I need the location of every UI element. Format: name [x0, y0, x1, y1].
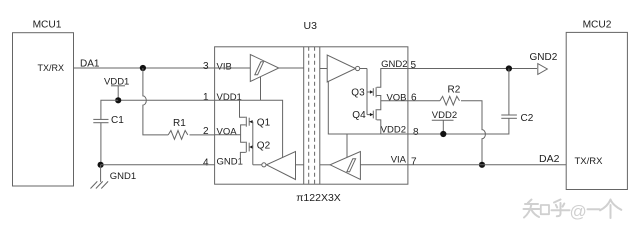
inverter right — [327, 55, 360, 82]
resistor R1 — [168, 118, 188, 139]
wire VDD1 rail down-left — [101, 100, 118, 119]
inverter left — [262, 152, 296, 180]
svg-text:R2: R2 — [448, 85, 461, 96]
pin VIB label — [217, 61, 232, 72]
transistor Q3 — [351, 87, 376, 98]
power flag VDD1 — [104, 76, 129, 103]
svg-text:VOA: VOA — [217, 126, 238, 137]
resistor R2 — [440, 85, 461, 106]
svg-text:8: 8 — [413, 127, 419, 138]
node GND2 junction — [506, 65, 512, 71]
ground — [91, 165, 137, 189]
svg-text:Q2: Q2 — [257, 141, 271, 152]
wire R1 to pin2 — [190, 134, 215, 136]
pin VOA label — [217, 126, 238, 137]
node DA1 label — [80, 59, 100, 70]
watermark zhihu — [524, 200, 622, 222]
svg-text:Q4: Q4 — [352, 110, 366, 121]
wire VOB internal — [381, 100, 408, 102]
pin 1 — [203, 92, 209, 103]
wire gate bus right — [366, 69, 368, 115]
schmitt buffer VIB — [250, 55, 278, 82]
svg-text:6: 6 — [411, 92, 417, 103]
svg-text:π122X3X: π122X3X — [296, 192, 341, 204]
svg-text:7: 7 — [411, 156, 417, 167]
pin VIA label — [391, 154, 407, 165]
pin 3 — [203, 61, 209, 72]
wire R2 to DA2 with hop — [461, 101, 485, 165]
svg-text:VIB: VIB — [217, 61, 232, 72]
svg-text:2: 2 — [203, 126, 209, 137]
wire GND2 to C2 — [508, 69, 510, 116]
isolation barrier dashed line 1 — [308, 47, 310, 184]
wire VDD2 riser from Q4 — [377, 120, 381, 134]
wire right inverter input — [320, 68, 327, 70]
MCU1 — [13, 20, 74, 186]
transistor Q4 — [352, 109, 376, 121]
svg-text:C1: C1 — [111, 115, 124, 126]
svg-text:3: 3 — [203, 61, 209, 72]
pin VDD2 label — [381, 124, 406, 135]
svg-text:R1: R1 — [173, 118, 186, 129]
wire GND2 internal — [377, 69, 408, 88]
capacitor C2 — [501, 113, 533, 124]
wire DA1-to-R1 branch with hop — [143, 68, 168, 135]
svg-text:TX/RX: TX/RX — [575, 156, 604, 167]
wire VIB buffer power tick — [260, 77, 262, 100]
transistor Q2 — [246, 141, 270, 153]
wire VOB tee — [377, 96, 381, 110]
isolation barrier right wall — [319, 47, 321, 184]
svg-text:TX/RX: TX/RX — [37, 63, 64, 73]
ground flag GND2 — [530, 52, 558, 74]
svg-text:Q3: Q3 — [351, 88, 365, 99]
pin VOB label — [386, 92, 406, 103]
wire VIB internal — [215, 67, 251, 69]
pin 2 — [203, 126, 209, 137]
svg-text:VDD1: VDD1 — [217, 92, 242, 103]
svg-text:GND1: GND1 — [217, 156, 243, 167]
wire VDD1 internal — [215, 100, 283, 157]
wire left inverter input — [296, 164, 304, 166]
power flag VDD2 — [432, 110, 457, 137]
wire VIB buffer output — [279, 67, 304, 69]
svg-text:Q1: Q1 — [257, 117, 271, 128]
op-amp U3 isolator body — [215, 20, 408, 204]
wire right inverter output to bus — [360, 68, 367, 70]
wire DA2 — [408, 164, 567, 166]
svg-text:4: 4 — [203, 158, 209, 169]
MCU2 — [566, 20, 627, 190]
svg-text:U3: U3 — [304, 20, 318, 32]
svg-text:MCU2: MCU2 — [583, 20, 612, 31]
svg-text:VIA: VIA — [391, 154, 407, 165]
svg-text:5: 5 — [411, 60, 417, 71]
wire bus to bubble — [253, 164, 262, 166]
svg-text:C2: C2 — [521, 113, 534, 124]
node DA2 label — [539, 153, 560, 165]
wire C1 to GND1 — [100, 123, 102, 165]
svg-text:@: @ — [570, 202, 587, 221]
isolation barrier dashed line 2 — [314, 47, 316, 184]
svg-text:VDD2: VDD2 — [432, 110, 457, 121]
wire VDD2 to VIA buffer power — [346, 134, 348, 158]
wire VOA tee — [241, 125, 246, 142]
svg-text:GND1: GND1 — [110, 171, 136, 182]
pin GND1 label — [217, 156, 243, 167]
pin GND2 label — [381, 59, 407, 70]
svg-text:MCU1: MCU1 — [33, 20, 62, 31]
wire GND1 pin4 — [101, 164, 215, 166]
isolation barrier left wall — [303, 47, 305, 184]
pin 6 — [411, 92, 417, 103]
pin VDD1 label — [217, 92, 242, 103]
wire VDD2 internal — [328, 81, 408, 134]
wire VDD1 pin1 — [118, 99, 214, 101]
svg-text:DA1: DA1 — [80, 59, 100, 70]
wire DA1 — [74, 67, 215, 69]
wire GND1 riser to Q2 — [240, 152, 245, 164]
node DA1 junction — [140, 65, 146, 71]
svg-text:GND2: GND2 — [530, 52, 558, 63]
pin 7 — [411, 156, 417, 167]
node GND1 junction — [98, 162, 104, 168]
transistor Q1 — [246, 117, 270, 129]
svg-text:DA2: DA2 — [539, 153, 560, 165]
svg-text:1: 1 — [203, 92, 209, 103]
wire VOB external to R2 — [408, 100, 440, 102]
pin 4 — [203, 158, 209, 169]
wire VDD1 riser to Q1 — [240, 100, 246, 117]
wire VIA buffer output — [320, 164, 330, 166]
pin 5 — [411, 60, 417, 71]
pin 8 — [413, 127, 419, 138]
capacitor C1 — [93, 115, 124, 126]
schmitt buffer VIA — [330, 152, 360, 180]
svg-text:VOB: VOB — [386, 92, 406, 103]
wire VOA internal — [215, 134, 241, 136]
wire VIA internal — [360, 164, 408, 166]
node DA2 junction — [479, 162, 485, 168]
wire gate bus left — [252, 122, 254, 165]
wire GND2 external — [408, 68, 537, 70]
wire C2 to VDD2 rail — [408, 118, 509, 134]
